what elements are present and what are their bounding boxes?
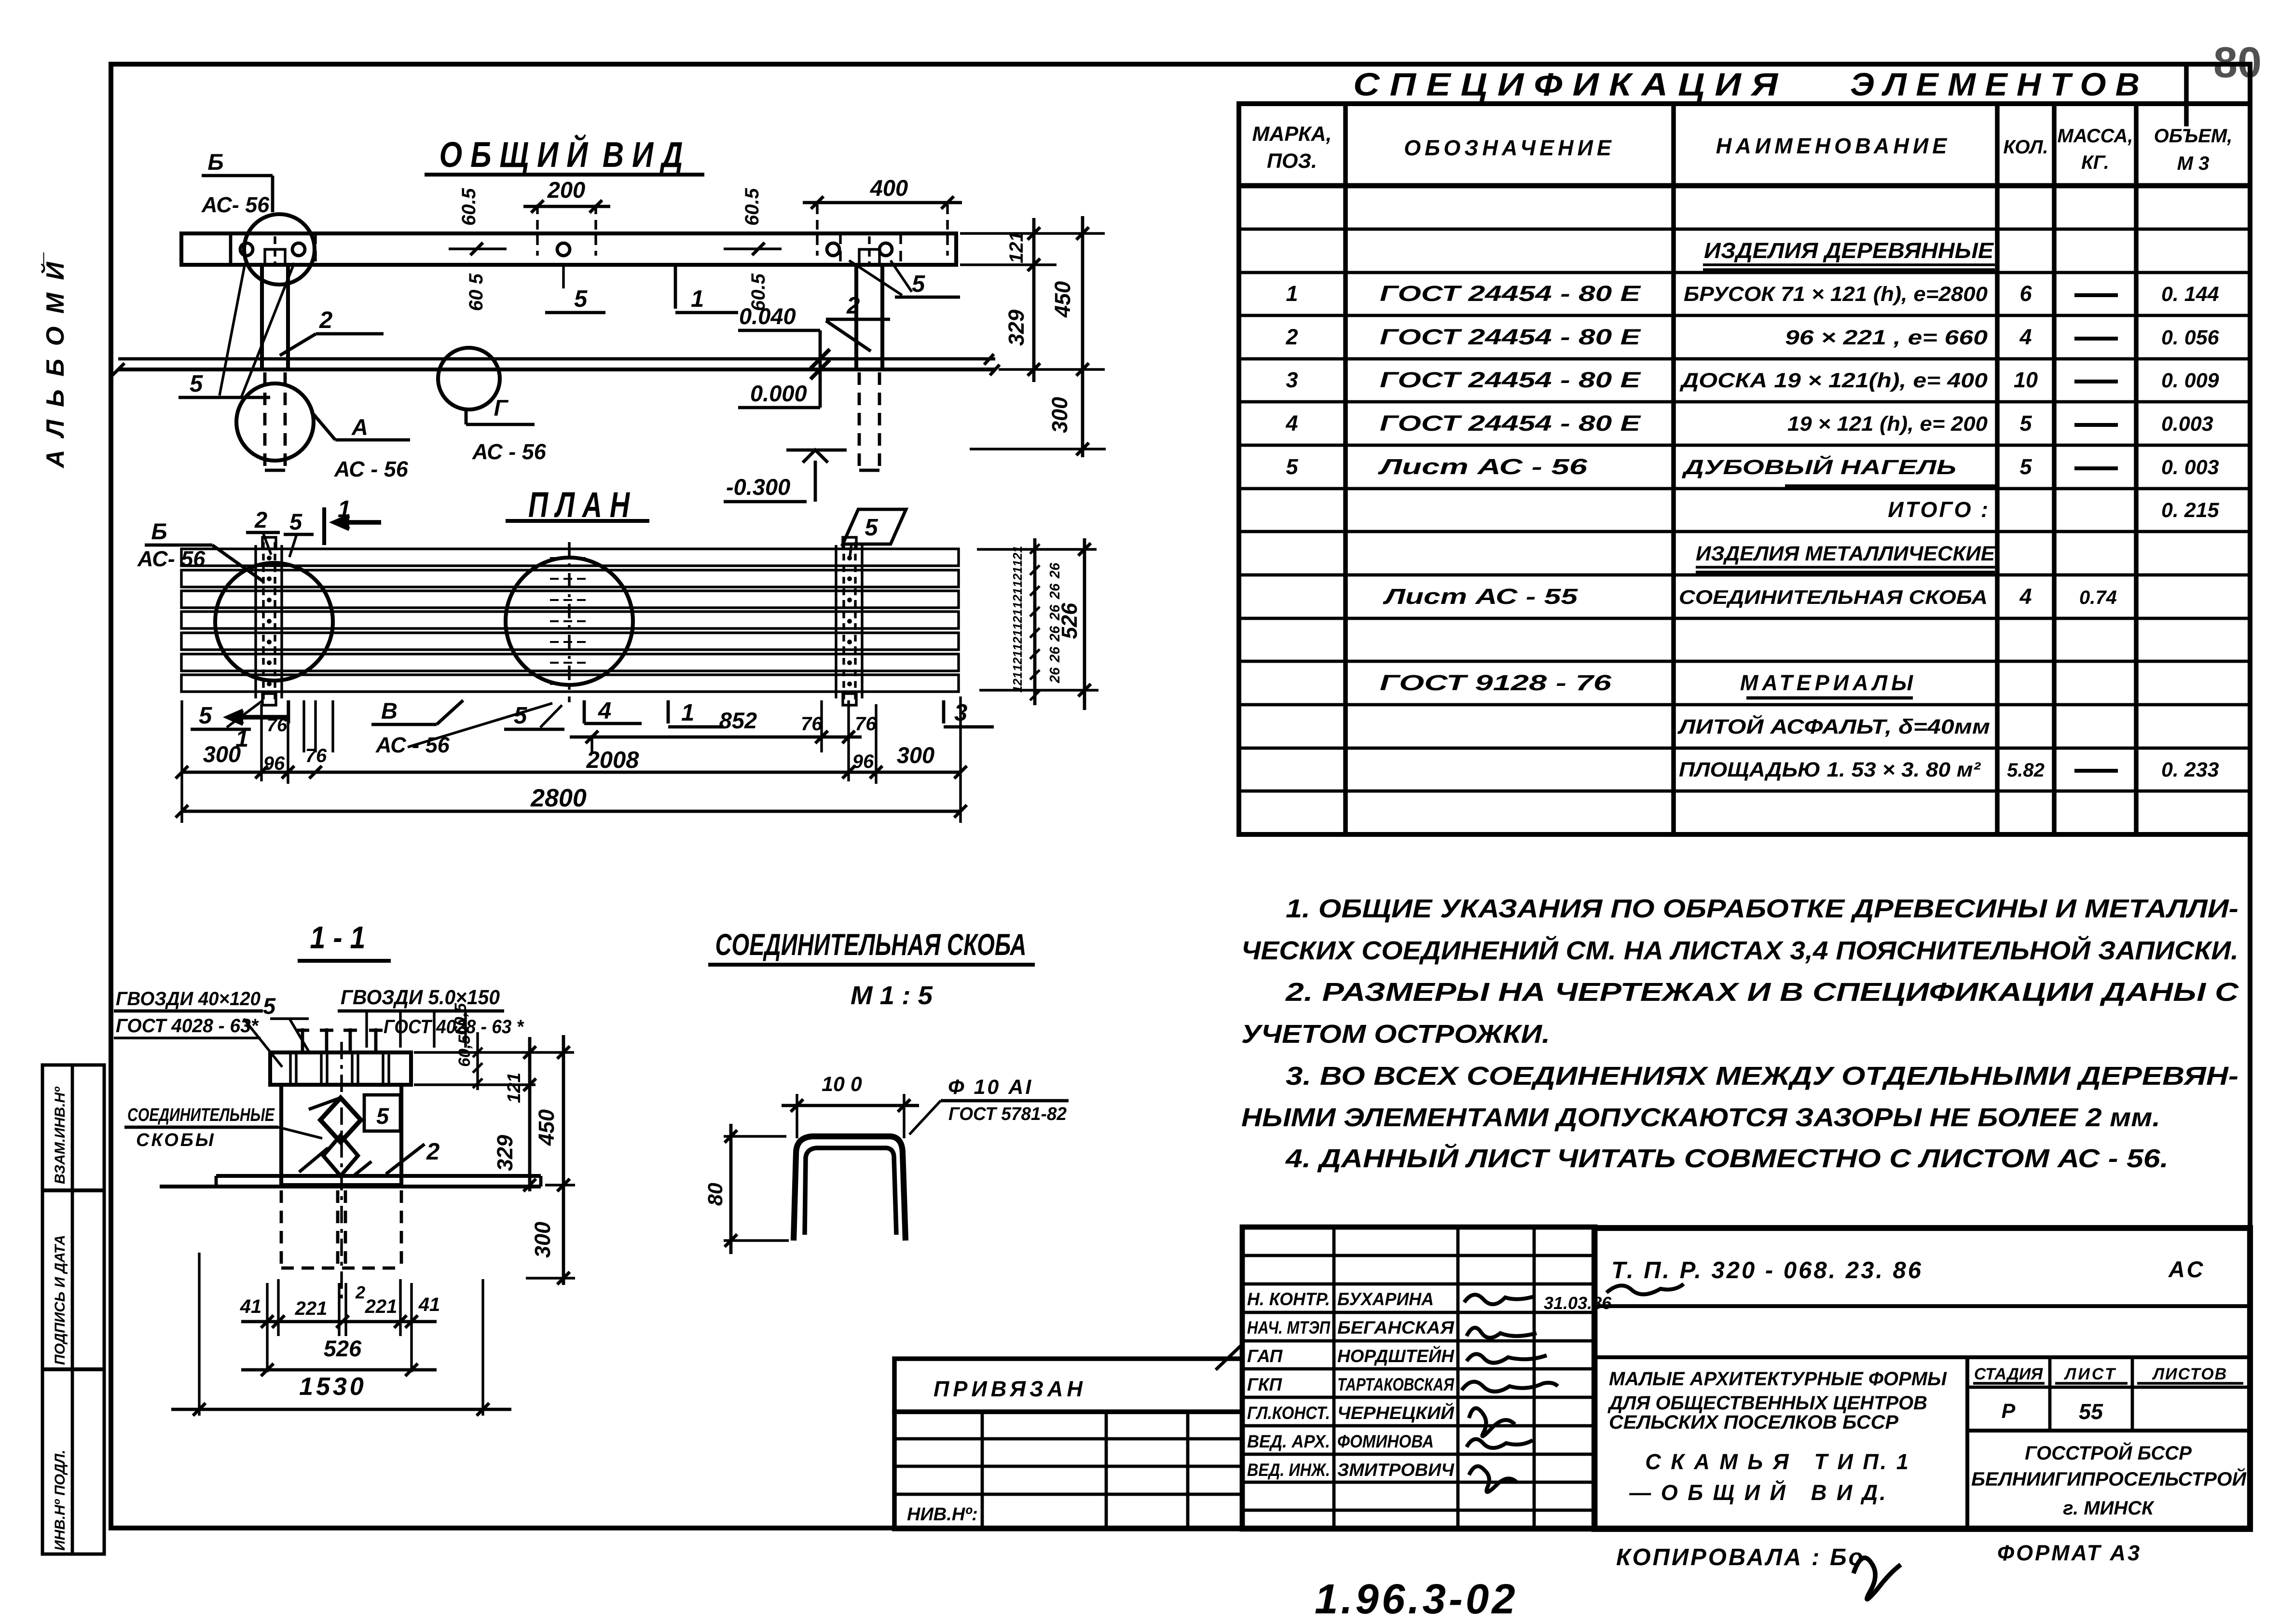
title block project name: [1965, 1357, 1969, 1529]
svg-text:5: 5: [289, 509, 302, 534]
svg-text:0.040: 0.040: [739, 303, 796, 329]
svg-text:НОРДШТЕЙН: НОРДШТЕЙН: [1337, 1346, 1455, 1366]
svg-text:СОЕДИНИТЕЛЬНАЯ СКОБА: СОЕДИНИТЕЛЬНАЯ СКОБА: [715, 928, 1027, 962]
svg-text:0. 233: 0. 233: [2161, 758, 2219, 781]
plan detail circle V: [215, 563, 333, 681]
svg-text:Ф 10 АІ: Ф 10 АІ: [948, 1076, 1033, 1099]
right leg: [856, 265, 882, 369]
svg-text:300: 300: [1047, 397, 1072, 433]
svg-text:С П Е Ц И Ф И К А Ц И Я: С П Е Ц И Ф И К А Ц И Я: [1353, 67, 1779, 103]
detail circle G: [438, 348, 500, 409]
section dim 526: [241, 1368, 437, 1372]
gap row leader slant: [1216, 1346, 1241, 1370]
svg-text:ИТОГО :: ИТОГО :: [1888, 497, 1990, 522]
stamp column boxes: [42, 1065, 104, 1554]
svg-text:121: 121: [1010, 630, 1025, 651]
plan right nagel column: [842, 542, 845, 700]
svg-text:СЕЛЬСКИХ ПОСЕЛКОВ БССР: СЕЛЬСКИХ ПОСЕЛКОВ БССР: [1609, 1412, 1898, 1433]
svg-text:— О Б Щ И Й В И Д.: — О Б Щ И Й В И Д.: [1629, 1480, 1887, 1505]
svg-text:2. РАЗМЕРЫ НА ЧЕРТЕЖАХ: 2. РАЗМЕРЫ НА ЧЕРТЕЖАХ И В СПЕЦИФИКАЦИИ …: [1285, 978, 2239, 1007]
svg-text:М 3: М 3: [2177, 153, 2210, 174]
callout 2 right: [826, 318, 890, 321]
svg-text:ВЗАМ.ИНВ.Нº: ВЗАМ.ИНВ.Нº: [52, 1086, 68, 1184]
svg-text:ГКП: ГКП: [1247, 1375, 1282, 1394]
svg-text:ГЛ.КОНСТ.: ГЛ.КОНСТ.: [1247, 1403, 1330, 1423]
section dim 450 300: [562, 1035, 565, 1285]
plan dim 2800: [182, 810, 961, 813]
svg-text:4: 4: [1285, 411, 1298, 436]
svg-text:ЧЕСКИХ СОЕДИНЕНИЙ СМ. НА ЛИСТ: ЧЕСКИХ СОЕДИНЕНИЙ СМ. НА ЛИСТАХ 3,4 ПОЯС…: [1241, 935, 2238, 965]
svg-text:ОБЪЕМ,: ОБЪЕМ,: [2154, 125, 2233, 147]
skoba dim 80: [724, 1135, 786, 1137]
svg-text:ИЗДЕЛИЯ ДЕРЕВЯННЫЕ: ИЗДЕЛИЯ ДЕРЕВЯННЫЕ: [1704, 238, 1994, 263]
svg-text:Лист АС - 55: Лист АС - 55: [1383, 584, 1578, 609]
nails leaders right: [365, 1012, 368, 1048]
svg-text:76: 76: [801, 713, 823, 735]
svg-text:СКОБЫ: СКОБЫ: [136, 1130, 216, 1150]
svg-text:0. 215: 0. 215: [2161, 499, 2220, 522]
plan ext lines bottom cluster right: [820, 700, 823, 752]
dim 60.5 left pair: [449, 247, 507, 250]
svg-text:П Л А Н: П Л А Н: [528, 485, 630, 525]
svg-text:В: В: [381, 698, 398, 723]
dim chain 450 300: [1081, 216, 1085, 457]
callout A label: [311, 411, 335, 440]
svg-text:СОЕДИНИТЕЛЬНЫЕ: СОЕДИНИТЕЛЬНЫЕ: [127, 1105, 275, 1125]
plan section mark 1 top: [322, 507, 326, 545]
svg-text:ГОСТ 24454 - 80 Е: ГОСТ 24454 - 80 Е: [1380, 281, 1642, 306]
signatures squiggles: [1464, 1295, 1534, 1304]
svg-text:852: 852: [719, 708, 757, 733]
svg-text:ГОСТ 9128 - 76: ГОСТ 9128 - 76: [1380, 670, 1612, 695]
section ground surface: [216, 1174, 541, 1178]
svg-text:2: 2: [319, 307, 332, 333]
svg-text:АС- 56: АС- 56: [201, 192, 270, 217]
svg-text:5: 5: [263, 993, 276, 1019]
svg-text:НАЧ. МТЭП: НАЧ. МТЭП: [1247, 1318, 1331, 1337]
svg-text:76: 76: [267, 715, 288, 736]
right leg tenon hidden: [859, 249, 879, 265]
svg-text:76: 76: [305, 745, 327, 766]
svg-text:96: 96: [852, 751, 874, 772]
svg-text:М 1 : 5: М 1 : 5: [851, 981, 933, 1010]
svg-text:ФОМИНОВА: ФОМИНОВА: [1337, 1432, 1434, 1451]
svg-text:ГВОЗДИ 5.0×150: ГВОЗДИ 5.0×150: [341, 986, 500, 1009]
title block left part privyazan: [894, 1359, 1242, 1412]
section right mini dim 60.5: [476, 1032, 479, 1090]
svg-text:0. 144: 0. 144: [2161, 283, 2219, 306]
ground break marks: [984, 354, 994, 365]
svg-text:3: 3: [1286, 368, 1298, 392]
plan callout 5 parallelogram right: [843, 509, 906, 544]
seat plank side view: [181, 233, 956, 265]
svg-text:Т. П. Р. 320 - 068. 23. 86: Т. П. Р. 320 - 068. 23. 86: [1611, 1257, 1923, 1283]
svg-text:МАТЕРИАЛЫ: МАТЕРИАЛЫ: [1740, 670, 1917, 695]
svg-text:5: 5: [574, 286, 588, 312]
svg-text:121: 121: [1010, 609, 1025, 630]
section dim row 41 221 2 221 41: [241, 1320, 437, 1324]
plan planks: [181, 549, 959, 566]
svg-text:0. 003: 0. 003: [2161, 456, 2219, 479]
svg-text:400: 400: [870, 175, 908, 201]
svg-text:БУХАРИНА: БУХАРИНА: [1337, 1289, 1434, 1309]
svg-text:БЕГАНСКАЯ: БЕГАНСКАЯ: [1337, 1318, 1455, 1337]
nagel hole middle: [557, 243, 570, 256]
callout 5 middle: [562, 263, 564, 288]
title block second row: [1594, 1355, 2250, 1359]
signature table: [1242, 1227, 1595, 1529]
svg-text:1.96.3-02: 1.96.3-02: [1315, 1576, 1518, 1623]
svg-text:ЧЕРНЕЦКИЙ: ЧЕРНЕЦКИЙ: [1337, 1403, 1455, 1423]
svg-text:ФОРМАТ А3: ФОРМАТ А3: [1997, 1541, 2142, 1565]
svg-text:ПОДПИСЬ И ДАТА: ПОДПИСЬ И ДАТА: [52, 1235, 68, 1365]
plan dim row 300 96 76 2008 96 300: [182, 771, 961, 774]
callout 1 middle: [674, 263, 677, 309]
title block left grid: [894, 1412, 1242, 1529]
svg-text:6: 6: [2019, 281, 2032, 306]
svg-text:121: 121: [1006, 231, 1027, 263]
svg-text:АС - 56: АС - 56: [334, 457, 409, 481]
svg-text:ГОСТ 24454 - 80 Е: ГОСТ 24454 - 80 Е: [1380, 411, 1642, 436]
svg-text:Э Л Е М Е Н Т О В: Э Л Е М Е Н Т О В: [1850, 67, 2140, 103]
plank hidden joint left: [314, 233, 316, 265]
svg-text:329: 329: [493, 1135, 517, 1171]
ground line top: [118, 357, 995, 361]
svg-text:ОБОЗНАЧЕНИЕ: ОБОЗНАЧЕНИЕ: [1404, 136, 1615, 160]
svg-text:329: 329: [1004, 310, 1029, 346]
nagel hole left a: [240, 243, 253, 256]
dim chain 121 329: [1032, 218, 1036, 382]
svg-text:ГАП: ГАП: [1247, 1346, 1283, 1366]
svg-text:ЛИСТ: ЛИСТ: [2063, 1365, 2117, 1383]
svg-text:60 5: 60 5: [466, 273, 487, 311]
svg-text:О Б Щ И Й В И Д: О Б Щ И Й В И Д: [439, 134, 683, 175]
svg-text:ГОСТ 4028 - 63*: ГОСТ 4028 - 63*: [116, 1015, 259, 1037]
svg-text:1 - 1: 1 - 1: [310, 920, 366, 955]
svg-text:ГОСТ 5781-82: ГОСТ 5781-82: [948, 1104, 1067, 1124]
plan dim 852 row: [590, 735, 593, 752]
svg-text:УЧЕТОМ ОСТРОЖКИ.: УЧЕТОМ ОСТРОЖКИ.: [1241, 1020, 1550, 1049]
section buried dashed: [280, 1190, 283, 1268]
svg-text:2: 2: [1285, 325, 1298, 349]
svg-text:ВЕД. ИНЖ.: ВЕД. ИНЖ.: [1247, 1460, 1330, 1480]
svg-text:76: 76: [855, 713, 877, 735]
svg-text:5: 5: [2019, 411, 2032, 436]
nagel hole left b: [292, 243, 305, 256]
svg-text:ГОСТ 24454 - 80 Е: ГОСТ 24454 - 80 Е: [1380, 368, 1642, 392]
svg-text:300: 300: [530, 1222, 555, 1258]
svg-text:ПРИВЯЗАН: ПРИВЯЗАН: [934, 1377, 1086, 1401]
svg-text:0.003: 0.003: [2161, 412, 2213, 436]
svg-text:0. 056: 0. 056: [2161, 326, 2220, 349]
callout G label: [465, 409, 468, 424]
svg-text:Лист АС - 56: Лист АС - 56: [1378, 454, 1588, 479]
skoba dim 100: [796, 1094, 798, 1138]
svg-text:4: 4: [598, 698, 611, 724]
detail circle B: [244, 214, 315, 285]
svg-text:Р: Р: [2002, 1400, 2016, 1423]
svg-text:26: 26: [1047, 562, 1063, 579]
svg-text:ГВОЗДИ 40×120: ГВОЗДИ 40×120: [116, 988, 261, 1010]
section bottom ext lines: [198, 1253, 200, 1416]
svg-text:121: 121: [1010, 567, 1025, 587]
nagel hole right b: [879, 243, 892, 256]
svg-text:2800: 2800: [530, 784, 587, 812]
svg-text:19 × 121 (h), е= 200: 19 × 121 (h), е= 200: [1787, 412, 1988, 436]
svg-text:2: 2: [846, 293, 860, 319]
svg-text:60.5: 60.5: [458, 188, 480, 226]
section dim 1530: [171, 1408, 511, 1411]
plan callout 3: [942, 700, 946, 723]
svg-text:2: 2: [426, 1139, 439, 1165]
svg-text:96 × 221 , е= 660: 96 × 221 , е= 660: [1785, 326, 1988, 349]
svg-text:АС: АС: [2168, 1256, 2206, 1282]
dim 400 top: [816, 205, 818, 256]
svg-text:СОЕДИНИТЕЛЬНАЯ СКОБА: СОЕДИНИТЕЛЬНАЯ СКОБА: [1679, 586, 1988, 608]
plan detail circle middle: [506, 558, 633, 685]
plan dim line plank widths: [1033, 538, 1037, 705]
svg-text:221: 221: [365, 1296, 398, 1317]
plan right ext top: [977, 548, 1097, 550]
svg-text:НАИМЕНОВАНИЕ: НАИМЕНОВАНИЕ: [1716, 134, 1951, 158]
plan right ext bottom: [979, 689, 1098, 691]
svg-text:КОЛ.: КОЛ.: [2003, 136, 2048, 158]
svg-text:1: 1: [1286, 281, 1298, 306]
svg-text:26: 26: [1047, 646, 1063, 663]
right leg buried dashed: [858, 372, 861, 470]
svg-text:300: 300: [203, 741, 241, 767]
svg-text:41: 41: [418, 1294, 440, 1315]
svg-text:4: 4: [2019, 325, 2032, 349]
svg-text:80: 80: [2213, 39, 2262, 87]
plan right leg edges: [835, 545, 837, 698]
svg-text:2: 2: [254, 507, 267, 532]
svg-text:МАССА,: МАССА,: [2058, 125, 2133, 147]
svg-text:31.03.86: 31.03.86: [1544, 1293, 1612, 1313]
callout 2 left: [280, 334, 316, 355]
svg-text:450: 450: [534, 1109, 559, 1146]
plan callout 1 bottom: [667, 700, 670, 723]
svg-text:0.000: 0.000: [750, 381, 807, 406]
svg-text:ЛИТОЙ АСФАЛЬТ, δ=40мм: ЛИТОЙ АСФАЛЬТ, δ=40мм: [1677, 714, 1990, 738]
plan left nagel column: [262, 542, 264, 700]
svg-text:ГОССТРОЙ БССР: ГОССТРОЙ БССР: [2025, 1441, 2192, 1464]
svg-text:1: 1: [338, 496, 351, 522]
svg-text:121: 121: [1010, 546, 1025, 567]
section dim 121 329: [528, 1037, 532, 1191]
svg-text:Б: Б: [207, 149, 223, 175]
svg-text:26: 26: [1047, 583, 1063, 600]
svg-text:60,5: 60,5: [452, 1003, 470, 1035]
svg-text:10: 10: [2014, 368, 2038, 392]
stadia list listov header: [1967, 1386, 2250, 1389]
plan middle nagel axis: [568, 542, 570, 702]
svg-text:ТАРТАКОВСКАЯ: ТАРТАКОВСКАЯ: [1337, 1375, 1455, 1394]
plank joint line left: [229, 233, 233, 265]
svg-text:80: 80: [704, 1183, 727, 1206]
svg-text:ПОЗ.: ПОЗ.: [1267, 150, 1317, 173]
title block tpr row: [1594, 1304, 2250, 1308]
svg-text:НЫМИ ЭЛЕМЕНТАМИ ДОПУСКАЮТСЯ: НЫМИ ЭЛЕМЕНТАМИ ДОПУСКАЮТСЯ ЗАЗОРЫ НЕ БО…: [1241, 1103, 2160, 1132]
svg-text:А: А: [351, 414, 368, 440]
svg-text:121: 121: [1010, 588, 1025, 609]
page number 80: [2184, 63, 2189, 126]
left leg tenon hidden: [265, 249, 285, 265]
svg-text:450: 450: [1050, 281, 1075, 318]
svg-text:-0.300: -0.300: [726, 474, 790, 500]
plan callout 4: [583, 700, 586, 723]
svg-text:ИЗДЕЛИЯ МЕТАЛЛИЧЕСКИЕ: ИЗДЕЛИЯ МЕТАЛЛИЧЕСКИЕ: [1696, 542, 1995, 565]
section nagel box 5: [364, 1095, 400, 1131]
svg-text:5: 5: [190, 371, 203, 397]
right dim extension lines: [960, 232, 1105, 234]
svg-text:ГОСТ 24454 - 80 Е: ГОСТ 24454 - 80 Е: [1380, 325, 1642, 349]
svg-text:1530: 1530: [299, 1373, 367, 1401]
title block right box: [1594, 1228, 2250, 1529]
section nails: [301, 1028, 304, 1052]
svg-text:526: 526: [324, 1336, 362, 1361]
svg-text:0. 009: 0. 009: [2161, 369, 2219, 392]
svg-text:МАРКА,: МАРКА,: [1252, 123, 1332, 146]
ground line bottom: [118, 368, 995, 371]
svg-text:60,5: 60,5: [455, 1035, 474, 1067]
svg-text:26: 26: [1047, 667, 1063, 683]
section post: [281, 1085, 401, 1185]
svg-text:ВЕД. АРХ.: ВЕД. АРХ.: [1247, 1432, 1330, 1451]
svg-text:БЕЛНИИГИПРОСЕЛЬСТРОЙ: БЕЛНИИГИПРОСЕЛЬСТРОЙ: [1971, 1467, 2247, 1490]
svg-text:5: 5: [865, 515, 878, 541]
plan left leg edges: [254, 545, 257, 698]
svg-text:4: 4: [2019, 584, 2032, 609]
svg-text:5: 5: [199, 703, 212, 729]
skoba bracket: [794, 1136, 906, 1241]
svg-text:3. ВО ВСЕХ СОЕДИНЕНИЯХ МЕЖ: 3. ВО ВСЕХ СОЕДИНЕНИЯХ МЕЖДУ ОТДЕЛЬНЫМИ …: [1286, 1062, 2238, 1091]
section skoba diamonds: [320, 1098, 361, 1142]
svg-text:КГ.: КГ.: [2081, 152, 2109, 173]
svg-text:ЗМИТРОВИЧ: ЗМИТРОВИЧ: [1337, 1460, 1455, 1480]
svg-text:5: 5: [376, 1103, 389, 1129]
svg-text:221: 221: [295, 1298, 328, 1319]
svg-text:1: 1: [681, 700, 694, 726]
svg-text:ДЛЯ ОБЩЕСТВЕННЫХ ЦЕНТРОВ: ДЛЯ ОБЩЕСТВЕННЫХ ЦЕНТРОВ: [1607, 1392, 1927, 1414]
svg-text:60.5: 60.5: [741, 188, 763, 226]
svg-text:300: 300: [897, 742, 934, 768]
section ext lines right: [414, 1051, 574, 1053]
dim 200 top: [536, 205, 538, 256]
svg-text:526: 526: [1057, 602, 1082, 639]
svg-text:5: 5: [1286, 454, 1298, 479]
dim 60.5 right pair: [724, 247, 782, 250]
section center axis: [340, 1042, 343, 1302]
svg-text:ПЛОЩАДЬЮ 1. 53 × 3. 80 м²: ПЛОЩАДЬЮ 1. 53 × 3. 80 м²: [1679, 758, 1981, 781]
plank hidden joint right: [839, 233, 841, 265]
plan dim 526: [1083, 538, 1086, 710]
svg-text:ДОСКА 19 × 121(h), е= 400: ДОСКА 19 × 121(h), е= 400: [1679, 369, 1988, 392]
left leg: [262, 265, 288, 369]
svg-text:55: 55: [2079, 1399, 2103, 1424]
svg-text:5.82: 5.82: [2007, 760, 2045, 781]
svg-text:1: 1: [691, 286, 704, 312]
svg-text:С К А М Ь Я Т И П. 1: С К А М Ь Я Т И П. 1: [1645, 1449, 1910, 1474]
spec table grid: [1239, 104, 2250, 834]
svg-text:ЛИСТОВ: ЛИСТОВ: [2152, 1365, 2227, 1383]
plan ext lines bottom cluster left: [260, 704, 262, 781]
svg-text:МАЛЫЕ АРХИТЕКТУРНЫЕ ФОРМЫ: МАЛЫЕ АРХИТЕКТУРНЫЕ ФОРМЫ: [1609, 1368, 1947, 1390]
svg-text:СТАДИЯ: СТАДИЯ: [1974, 1365, 2044, 1383]
svg-text:2008: 2008: [586, 747, 639, 773]
svg-text:96: 96: [263, 753, 285, 774]
svg-text:Н. КОНТР.: Н. КОНТР.: [1247, 1289, 1330, 1309]
svg-text:НИВ.Нº:: НИВ.Нº:: [907, 1504, 978, 1525]
svg-text:10 0: 10 0: [822, 1073, 862, 1096]
svg-text:121: 121: [504, 1073, 524, 1103]
section seat beam: [270, 1052, 411, 1085]
svg-text:АС- 56: АС- 56: [137, 546, 206, 571]
detail circle A: [236, 383, 314, 461]
svg-text:г. МИНСК: г. МИНСК: [2063, 1498, 2155, 1519]
left leg buried dashed: [263, 372, 267, 470]
svg-text:Г: Г: [494, 395, 509, 421]
nails leader left: [244, 1019, 282, 1067]
nagel hole right a: [827, 243, 839, 256]
svg-text:5: 5: [2019, 454, 2032, 479]
svg-text:2: 2: [355, 1283, 365, 1302]
plan bottom section mark 1: [231, 715, 288, 720]
svg-text:4. ДАННЫЙ ЛИСТ ЧИТАТЬ СО: 4. ДАННЫЙ ЛИСТ ЧИТАТЬ СОВМЕСТНО С ЛИСТОМ…: [1285, 1143, 2169, 1173]
section skoba cross lines: [309, 1098, 341, 1109]
svg-text:БРУСОК 71 × 121 (h), е=2800: БРУСОК 71 × 121 (h), е=2800: [1684, 283, 1988, 306]
svg-text:А Л Ь Б О М Й̅: А Л Ь Б О М Й̅: [41, 252, 69, 469]
svg-text:АС - 56: АС - 56: [472, 439, 547, 464]
svg-text:0.74: 0.74: [2079, 587, 2117, 608]
svg-text:ДУБОВЫЙ НАГЕЛЬ: ДУБОВЫЙ НАГЕЛЬ: [1681, 455, 1956, 479]
svg-text:41: 41: [240, 1296, 262, 1317]
svg-text:200: 200: [547, 177, 585, 203]
svg-text:ИНВ.Нº ПОДЛ.: ИНВ.Нº ПОДЛ.: [52, 1450, 68, 1551]
svg-text:5: 5: [514, 703, 527, 729]
svg-text:5: 5: [912, 271, 925, 297]
svg-text:121: 121: [1010, 651, 1025, 671]
svg-text:1. ОБЩИЕ УКАЗАНИЯ ПО ОБРА: 1. ОБЩИЕ УКАЗАНИЯ ПО ОБРАБОТКЕ ДРЕВЕСИНЫ…: [1286, 894, 2238, 923]
svg-text:121: 121: [1010, 672, 1025, 693]
svg-text:КОПИРОВАЛА : Бо: КОПИРОВАЛА : Бо: [1616, 1544, 1865, 1570]
svg-text:Б: Б: [151, 519, 167, 544]
